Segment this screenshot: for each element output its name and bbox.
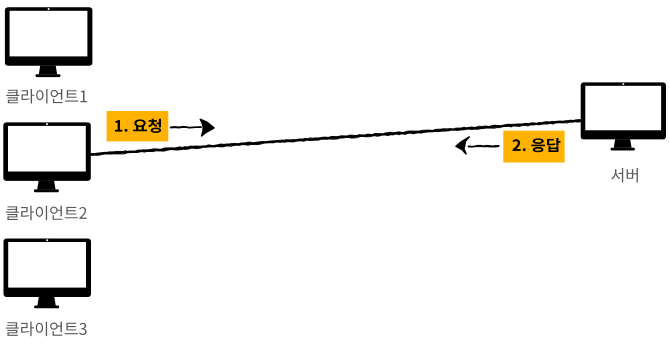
label 클라이언트3 [6, 322, 87, 337]
label 클라이언트2 [6, 206, 87, 221]
label 클라이언트1 [6, 89, 87, 104]
response label box 2. 응답 [503, 131, 564, 163]
client computer 2 icon [3, 122, 91, 192]
request label box 1. 요청 [107, 111, 169, 141]
label 서버 [611, 168, 638, 183]
client computer 3 icon [4, 239, 92, 309]
request arrow [171, 119, 214, 136]
server computer icon [581, 82, 666, 150]
response arrow [456, 137, 499, 154]
wire client2 to server [91, 120, 581, 156]
client computer 1 icon [5, 7, 93, 77]
